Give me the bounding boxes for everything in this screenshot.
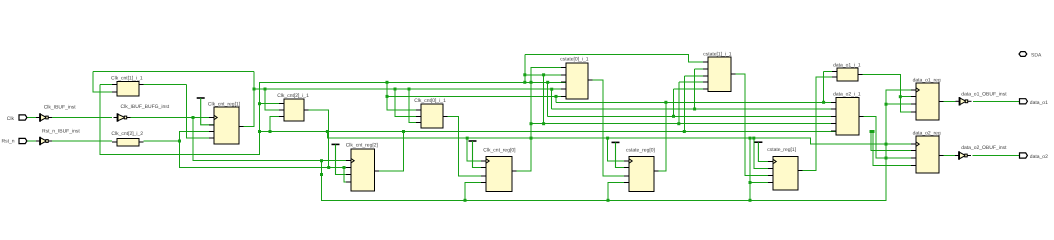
buffer Clk_IBUF_BUFG_inst bbox=[114, 113, 131, 122]
cell data_o1_reg bbox=[911, 83, 944, 120]
wire data_o1_i_1 in1 riser bbox=[824, 71, 837, 73]
wire input1 riser down to y154.5 run bbox=[100, 82, 566, 154]
wire Clk_cnt_reg[0] Q riser bbox=[517, 124, 532, 171]
cell cstate_reg[1] bbox=[768, 157, 803, 191]
wire cstate[0]_i_1 in1 feed and riser bbox=[531, 68, 566, 124]
wire data_o1_OBUF to port bbox=[973, 100, 1020, 102]
vcc tie for Clk_cnt_reg[0] CE bbox=[469, 141, 487, 168]
svg-text:data_o1_reg: data_o1_reg bbox=[913, 77, 941, 83]
cell Clk_cnt_reg[0] bbox=[481, 157, 517, 192]
junction B1 bbox=[822, 101, 825, 104]
svg-text:Clk: Clk bbox=[7, 116, 15, 122]
svg-text:Rst_n: Rst_n bbox=[2, 139, 15, 145]
cell Clk_cnt[2]_i_2 bbox=[112, 139, 144, 147]
junction clear net bbox=[178, 140, 181, 143]
wire cstate[1]_i_1 in5 bbox=[674, 88, 709, 90]
svg-text:Clk_cnt[2]_i_2: Clk_cnt[2]_i_2 bbox=[111, 131, 143, 137]
cell Clk_cnt_reg[2] bbox=[346, 149, 379, 191]
svg-text:Clk_IBUF_BUFG_inst: Clk_IBUF_BUFG_inst bbox=[121, 104, 170, 110]
wire loop down to Clk_cnt[1]_i_1 input2 bbox=[93, 72, 112, 92]
output port data_o2 bbox=[1020, 153, 1028, 158]
input port Rst_n bbox=[19, 138, 27, 143]
wire clear to Clk_cnt_reg[1] CLR bbox=[180, 131, 215, 141]
junction joins CLR line bbox=[327, 166, 330, 169]
wire bus line B4 y123.7 bbox=[543, 75, 545, 124]
wire data_o1_reg in3 stub bbox=[886, 103, 916, 105]
junction in3 tap bbox=[269, 130, 272, 133]
wire branch into Clk_cnt[0]_i_1 in2 bbox=[395, 89, 421, 117]
vcc tie for Clk_cnt_reg[1] CE bbox=[197, 98, 214, 125]
wire Clk_cnt[2]_i_1 in3 bbox=[270, 117, 279, 132]
wire cstate[0]_i_1 in5 feed line bbox=[387, 95, 566, 97]
wire data_o1_reg Q to OBUF bbox=[944, 100, 956, 102]
wire Clk_cnt_reg[0] C from B6 bbox=[467, 138, 486, 161]
junction bbox=[672, 115, 675, 118]
wire Clk BUFG output run to Clk_cnt_reg[1] C pin bbox=[131, 117, 215, 119]
svg-text:data_o2_reg: data_o2_reg bbox=[913, 131, 941, 137]
wire Rst_n_IBUF to Clk_cnt[2]_i_2 bbox=[52, 140, 112, 142]
wire riser x524.8 top line link bbox=[524, 55, 526, 83]
junction reg2 Q joins bbox=[402, 130, 405, 133]
svg-text:Clk_cnt_reg[0]: Clk_cnt_reg[0] bbox=[483, 148, 516, 154]
svg-text:data_o1_i_1: data_o1_i_1 bbox=[833, 62, 861, 68]
cell Clk_cnt[0]_i_1 bbox=[416, 104, 448, 128]
wire cstate_reg[1] Q up to data_o1_i_1 in2 bbox=[798, 77, 837, 170]
junction B6 tap bbox=[606, 137, 609, 140]
svg-text:data_o2_i_1: data_o2_i_1 bbox=[833, 91, 861, 97]
wire reg2 Q long line tail to data_o2_reg CE bbox=[871, 132, 916, 151]
wire long bottom distribution line bbox=[322, 90, 917, 200]
junction in1 bbox=[258, 102, 261, 105]
wire long mid line y131.5 (Clk_cnt_reg[2] Q net) bbox=[260, 131, 837, 133]
junction B6 bbox=[752, 137, 755, 140]
junction cstate_reg1 R bbox=[749, 181, 752, 184]
junction branch to CE bbox=[899, 95, 902, 98]
wire cstate[1]_i_1 in4 bbox=[679, 81, 708, 83]
cell data_o1_i_1 bbox=[832, 68, 863, 81]
junction in1 riser B4 end bbox=[530, 122, 533, 125]
junction riser branch pin3 o1 bbox=[885, 103, 888, 106]
junction reg1 Q branch bbox=[253, 88, 256, 91]
junction riser reg0 R bbox=[464, 199, 467, 202]
wire branch into Clk_cnt[0]_i_1 in3 bbox=[409, 89, 421, 123]
svg-text:Clk_cnt_reg[1]: Clk_cnt_reg[1] bbox=[208, 102, 241, 108]
svg-text:cstate[1]_i_1: cstate[1]_i_1 bbox=[703, 51, 732, 57]
junction riser crossing pin3 line bbox=[885, 157, 888, 160]
wire reg1 Q branch right bbox=[254, 88, 409, 90]
buffer data_o1_OBUF_inst bbox=[956, 97, 972, 106]
junction branch down to Clk_cnt[0]_i_1 bbox=[386, 81, 389, 84]
junction bbox=[683, 130, 686, 133]
junction R riser bbox=[343, 166, 346, 169]
wire clear net down and right into Clk_cnt_reg[2] CLR bbox=[180, 141, 352, 168]
wire Clk_cnt_reg[1] feedback loop top bbox=[93, 71, 254, 73]
junction B1 riser bbox=[555, 95, 558, 98]
buffer Clk_IBUF_inst bbox=[36, 113, 52, 122]
wire into Clk_cnt[0]_i_1 in1 bbox=[387, 82, 421, 110]
wire Clk_IBUF net bbox=[52, 117, 112, 119]
wire data_o2_OBUF to port bbox=[973, 155, 1020, 157]
wire data_o2_reg R feed bbox=[873, 132, 916, 166]
junction B3 riser bbox=[546, 81, 549, 84]
cell cstate_reg[0] bbox=[624, 157, 659, 192]
wire cstate[0]_i_1 in2 feed bbox=[525, 74, 566, 76]
wire Clk_cnt[2]_i_2 output (clear net) bbox=[144, 140, 180, 142]
cell cstate[0]_i_1 bbox=[561, 63, 593, 99]
vcc tie for cstate_reg[1] C pin bbox=[754, 142, 773, 161]
junction B4 riser joins in2 line bbox=[542, 73, 545, 76]
wire Clk_cnt_reg[1] Q to loop bbox=[244, 72, 255, 127]
cell cstate[1]_i_1 bbox=[703, 57, 736, 92]
cell data_o2_reg bbox=[911, 136, 944, 173]
cell Clk_cnt[2]_i_1 bbox=[279, 99, 309, 121]
junction in1 riser crossing bbox=[530, 81, 533, 84]
junction cstate_reg0 Q joins B1 bbox=[664, 101, 667, 104]
svg-text:cstate_reg[1]: cstate_reg[1] bbox=[767, 147, 797, 153]
wire cstate[0]_i_1 output to cstate_reg[0] D bbox=[593, 80, 630, 176]
svg-text:Clk_IBUF_inst: Clk_IBUF_inst bbox=[44, 105, 77, 111]
wire riser to cstate_reg[0] R bbox=[608, 183, 629, 201]
buffer data_o2_OBUF_inst bbox=[955, 151, 971, 160]
inout port SDA bbox=[1019, 52, 1027, 57]
wire Clk_cnt[2]_i_1 in1 bbox=[260, 103, 280, 105]
wire clk into Clk_cnt_reg[2] C bbox=[322, 160, 352, 162]
output port data_o1 bbox=[1020, 99, 1028, 104]
svg-text:data_o2: data_o2 bbox=[1030, 154, 1048, 160]
junction R feed tap bbox=[872, 130, 875, 133]
wire Clk_cnt[0]_i_1 output to Clk_cnt_reg[0] D bbox=[448, 117, 487, 177]
svg-text:data_o1_OBUF_inst: data_o1_OBUF_inst bbox=[961, 91, 1007, 97]
junction riser crossing B6 bbox=[530, 137, 533, 140]
wire cstate_reg[0] Q riser to B1 bbox=[654, 102, 666, 171]
junction in2 tap bbox=[264, 88, 267, 91]
wire data_o2_reg Q to OBUF bbox=[944, 155, 956, 157]
wire data_o1_i_1 output to data_o1_reg bbox=[863, 75, 917, 113]
wire Clk_cnt[2]_i_1 output down to Clk_cnt_reg[2] bbox=[309, 110, 329, 168]
svg-text:Clk_cnt[0]_i_1: Clk_cnt[0]_i_1 bbox=[414, 98, 446, 104]
junction at x395 bbox=[394, 88, 397, 91]
wire cstate[1]_i_1 output to cstate_reg[1] D bbox=[736, 74, 774, 176]
junction riser cstate_reg1 bbox=[749, 199, 752, 202]
wire cstate_reg[0] C from B6 bbox=[608, 138, 629, 161]
buffer Rst_n_IBUF_inst bbox=[36, 137, 52, 146]
junction B6 tap bbox=[466, 137, 469, 140]
wire cstate_reg[1] R stub bbox=[750, 182, 773, 184]
cell Clk_cnt[1]_i_1 bbox=[112, 82, 144, 97]
junction bbox=[677, 122, 680, 125]
wire Clk_cnt[2]_i_1 in2 bbox=[265, 89, 279, 110]
svg-text:data_o2_OBUF_inst: data_o2_OBUF_inst bbox=[961, 145, 1007, 151]
wire riser to cstate_reg[1] R and B6 link bbox=[749, 138, 751, 200]
wire Rst_n input net bbox=[27, 140, 37, 142]
wire i1 output down to reg1 D bbox=[187, 85, 215, 138]
svg-text:cstate_reg[0]: cstate_reg[0] bbox=[626, 148, 656, 154]
cell data_o2_i_1 bbox=[831, 98, 864, 136]
junction in3 branch bbox=[408, 88, 411, 91]
wire bus line B1 y102.3 bbox=[555, 96, 557, 102]
wire branch into data_o1_reg pin2 bbox=[900, 96, 916, 98]
junction clk at x193 bbox=[192, 116, 195, 119]
wire cstate[1]_i_1 in3 bbox=[684, 75, 708, 77]
junction tail bbox=[870, 130, 873, 133]
wire cstate[1]_i_1 in2 bbox=[695, 68, 708, 70]
wire Clk_cnt[1]_i_1 output bbox=[144, 84, 187, 86]
wire bus line B6 y138.1 clock spur bbox=[327, 132, 916, 145]
svg-text:Rst_n_IBUF_inst: Rst_n_IBUF_inst bbox=[42, 129, 80, 135]
junction top riser joins bbox=[523, 81, 526, 84]
junction B4 bbox=[542, 122, 545, 125]
svg-text:SDA: SDA bbox=[1031, 53, 1042, 59]
wire bus line B3 y116.3 bbox=[547, 82, 549, 116]
junction B6 tap on long line bbox=[326, 130, 329, 133]
svg-text:Clk_cnt[1]_i_1: Clk_cnt[1]_i_1 bbox=[111, 75, 143, 81]
junction bbox=[693, 108, 696, 111]
wire cstate_reg[1] CE from B6 bbox=[754, 138, 773, 168]
junction x321.5 crossing bbox=[320, 173, 323, 176]
wire Clk_cnt[1]_i_1 input1 net bbox=[100, 84, 112, 86]
junction B2 riser bbox=[550, 88, 553, 91]
wire data_o2_i_1 output to data_o2_reg D bbox=[864, 117, 917, 158]
junction x259.5 long line bbox=[258, 130, 261, 133]
wire Clk_cnt_reg[2] Q riser bbox=[379, 132, 404, 172]
wire clear into Clk_cnt_reg[2] R pin bbox=[344, 168, 351, 183]
wire y89 extension to cstate[0] in4 bbox=[409, 88, 566, 90]
wire top line y54.7 across to cstate[1]_i_1 in1 bbox=[525, 55, 708, 62]
vcc tie for Clk_cnt_reg[2] CE bbox=[332, 144, 352, 174]
input port Clk bbox=[19, 115, 27, 120]
junction riser cstate_reg0 R bbox=[607, 199, 610, 202]
wire bus line B2 y109 bbox=[551, 89, 553, 109]
junction branch to cstate[0] in2 bbox=[523, 73, 526, 76]
svg-text:Clk_cnt_reg[2]: Clk_cnt_reg[2] bbox=[346, 143, 379, 149]
wire riser to Clk_cnt_reg[0] R bbox=[465, 183, 486, 201]
svg-text:data_o1: data_o1 bbox=[1030, 100, 1048, 106]
vcc tie for cstate_reg[0] CE bbox=[612, 142, 630, 167]
wire clk riser to lower distribution bbox=[193, 118, 322, 161]
junction clk x321.5 bbox=[320, 159, 323, 162]
svg-text:Clk_cnt[2]_i_1: Clk_cnt[2]_i_1 bbox=[277, 93, 309, 99]
cell Clk_cnt_reg[1] bbox=[209, 107, 244, 144]
junction riser crossing spur bbox=[885, 143, 888, 146]
svg-text:cstate[0]_i_1: cstate[0]_i_1 bbox=[560, 57, 589, 63]
junction in5 feed branch bbox=[386, 95, 389, 98]
wire Clk input net bbox=[27, 117, 37, 119]
junction B6 link bbox=[749, 137, 752, 140]
